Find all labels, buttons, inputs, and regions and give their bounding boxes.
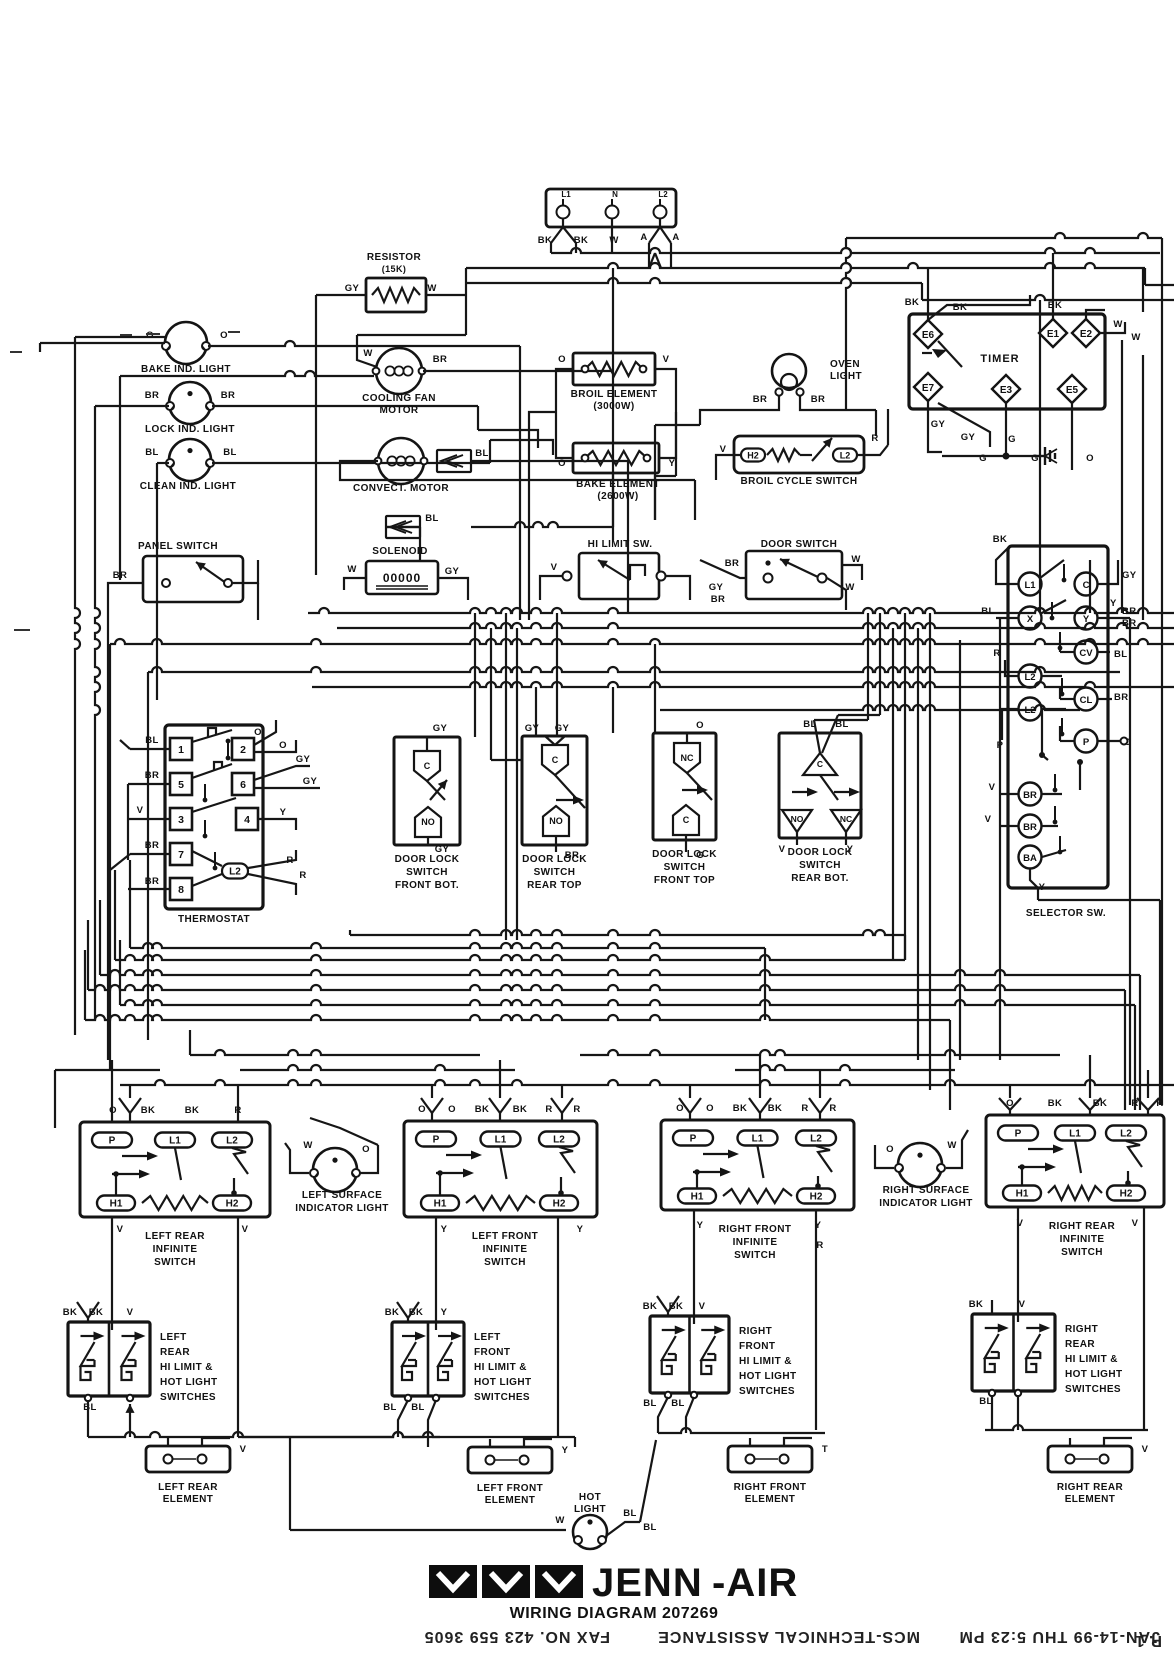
svg-text:GY: GY: [296, 754, 311, 765]
svg-text:A: A: [672, 232, 679, 243]
wire bus y1070c: [735, 1065, 955, 1070]
svg-text:LOCK IND. LIGHT: LOCK IND. LIGHT: [145, 424, 235, 435]
wire A fork from connector L2: [649, 218, 660, 243]
svg-text:BK: BK: [905, 297, 920, 308]
svg-text:H1: H1: [1016, 1189, 1029, 1200]
right rear infinite switch wipers: [1028, 1148, 1056, 1150]
svg-text:G: G: [1031, 453, 1039, 464]
svg-text:H1: H1: [434, 1199, 447, 1210]
svg-text:GY: GY: [303, 776, 318, 787]
svg-text:L1: L1: [495, 1135, 507, 1146]
wire: [928, 430, 942, 452]
svg-text:8: 8: [178, 884, 184, 896]
wire: [759, 1113, 761, 1120]
svg-text:SWITCH: SWITCH: [154, 1257, 196, 1268]
svg-text:O: O: [448, 1104, 456, 1115]
left rear infinite switch L1 blade: [175, 1148, 181, 1180]
svg-text:DOOR LOCK: DOOR LOCK: [652, 849, 717, 860]
svg-text:Y: Y: [562, 1445, 569, 1456]
wire: [675, 412, 677, 476]
wire: [819, 1113, 821, 1120]
svg-text:(2600W): (2600W): [597, 491, 638, 502]
svg-text:O: O: [696, 720, 704, 731]
svg-text:V: V: [127, 1307, 134, 1318]
terminal 7: [170, 843, 192, 865]
svg-text:H1: H1: [691, 1192, 704, 1203]
selector terminal BA: [1019, 846, 1042, 869]
wire: [1086, 310, 1105, 319]
svg-text:E5: E5: [1066, 385, 1079, 396]
wire: [490, 628, 492, 760]
wire L1 BK: [996, 548, 1018, 584]
selector switch: [1008, 546, 1108, 888]
svg-text:Y: Y: [1039, 882, 1046, 893]
svg-text:L2: L2: [810, 1134, 822, 1145]
blade 8-L2: [192, 874, 222, 886]
left rear hi limit & hot light switches hook2: [122, 1366, 132, 1380]
svg-text:HOT LIGHT: HOT LIGHT: [474, 1377, 531, 1388]
wire: [904, 935, 906, 960]
svg-text:V: V: [720, 444, 727, 455]
wire rail x1143: [1142, 355, 1144, 620]
svg-text:C: C: [552, 755, 559, 765]
svg-text:BR: BR: [113, 570, 128, 581]
svg-text:BR: BR: [221, 390, 236, 401]
svg-text:INDICATOR LIGHT: INDICATOR LIGHT: [295, 1203, 388, 1214]
svg-text:O: O: [558, 354, 566, 365]
svg-text:X: X: [1027, 614, 1034, 625]
svg-text:L1: L1: [752, 1134, 764, 1145]
wire broil-bake left: [556, 369, 573, 458]
svg-text:H2: H2: [553, 1199, 566, 1210]
selector terminal CL: [1075, 688, 1098, 711]
hot light: [573, 1515, 607, 1549]
bake indicator light: [165, 322, 207, 364]
svg-text:REAR BOT.: REAR BOT.: [791, 873, 849, 884]
svg-text:GY: GY: [345, 283, 360, 294]
svg-text:REAR: REAR: [160, 1347, 190, 1358]
svg-text:DOOR LOCK: DOOR LOCK: [788, 847, 853, 858]
right surface indicator light: [898, 1143, 942, 1187]
svg-text:4: 4: [244, 814, 250, 826]
svg-text:HOT LIGHT: HOT LIGHT: [739, 1371, 796, 1382]
wire: [114, 870, 116, 960]
wire solenoid left: [344, 578, 366, 590]
wire: [431, 1113, 433, 1121]
wire bus y1005: [120, 1000, 1135, 1005]
svg-text:INFINITE: INFINITE: [733, 1237, 778, 1248]
left front element: [468, 1447, 552, 1473]
svg-text:R: R: [573, 1104, 580, 1115]
right rear hi limit & hot light switches hook1: [985, 1358, 995, 1372]
cooling fan motor: [376, 348, 422, 394]
right rear infinite switch L2 blade: [1126, 1141, 1142, 1167]
left front hi limit & hot light switches hook1: [402, 1366, 412, 1380]
left front infinite switch H2 stem: [560, 1177, 562, 1195]
svg-text:L2: L2: [226, 1136, 238, 1147]
svg-text:W: W: [363, 348, 372, 359]
svg-text:G: G: [696, 850, 704, 861]
wire: [535, 687, 537, 736]
svg-text:ELEMENT: ELEMENT: [745, 1494, 796, 1505]
wire BL2: [838, 714, 880, 716]
svg-text:RIGHT SURFACE: RIGHT SURFACE: [883, 1185, 970, 1196]
wire broil right V: [655, 369, 676, 458]
svg-text:G: G: [1008, 434, 1016, 445]
wire rail x1040: [1039, 300, 1041, 560]
left rear infinite switch terminal H2: [213, 1196, 251, 1211]
wire fork BK at connector: [550, 243, 552, 253]
wire hi limit right: [666, 576, 690, 600]
wire bus y935: [350, 930, 905, 935]
wire rail x110: [109, 644, 111, 1070]
left rear infinite switch: [80, 1122, 270, 1217]
svg-text:BK: BK: [513, 1104, 528, 1115]
svg-text:BR: BR: [1023, 822, 1037, 833]
wire bus y710: [660, 705, 1080, 710]
svg-text:HI LIMIT &: HI LIMIT &: [739, 1356, 792, 1367]
svg-text:GY: GY: [961, 432, 976, 443]
wire solenoid right GY: [438, 578, 468, 600]
convection motor: [378, 438, 424, 484]
wire rail x75: [75, 337, 80, 1035]
broil element (3000W): [573, 353, 655, 385]
svg-text:RIGHT FRONT: RIGHT FRONT: [734, 1482, 807, 1493]
right rear hi limit & hot light switches: [972, 1314, 1055, 1391]
svg-text:HOT: HOT: [579, 1492, 601, 1503]
right front infinite switch terminal L2: [796, 1131, 836, 1146]
node fork at x655: [649, 253, 655, 268]
svg-text:O: O: [254, 727, 262, 738]
svg-text:BL: BL: [643, 1398, 656, 1409]
svg-text:RIGHT REAR: RIGHT REAR: [1049, 1221, 1116, 1232]
svg-text:MOTOR: MOTOR: [379, 405, 418, 416]
thermostat blades: [192, 730, 232, 742]
wire X BL: [996, 617, 1018, 619]
terminal 5: [170, 773, 192, 795]
svg-text:BL: BL: [1114, 649, 1127, 660]
svg-text:FRONT TOP: FRONT TOP: [654, 875, 715, 886]
stray scan marks: [10, 352, 30, 630]
right rear hi limit & hot light switches hook2: [1026, 1358, 1036, 1372]
right rear infinite switch resistor: [1048, 1186, 1102, 1200]
wire: [658, 1397, 668, 1433]
wire: [189, 1030, 191, 1055]
right front hi limit & hot light switches hook1: [662, 1360, 672, 1374]
left rear infinite switch terminal L1: [155, 1133, 195, 1148]
svg-text:6: 6: [240, 779, 246, 791]
svg-text:WIRING DIAGRAM 207269: WIRING DIAGRAM 207269: [510, 1605, 719, 1622]
svg-text:BK: BK: [141, 1105, 156, 1116]
svg-text:BK: BK: [1048, 300, 1063, 311]
wire: [1161, 238, 1163, 253]
left rear element stub: [202, 1438, 230, 1446]
wire lock light left: [95, 405, 169, 407]
wire: [129, 1085, 131, 1098]
svg-text:V: V: [1132, 1218, 1139, 1229]
wire bus y990: [88, 985, 1125, 990]
wire oven light down: [700, 396, 779, 425]
wire: [465, 268, 467, 295]
svg-text:BR: BR: [145, 840, 160, 851]
svg-text:W: W: [609, 235, 618, 246]
wire Y: [1097, 617, 1130, 619]
left rear infinite switch L2 blade: [232, 1148, 248, 1174]
svg-text:CL: CL: [1080, 695, 1093, 706]
svg-text:2: 2: [240, 744, 246, 756]
arrow connector plug: [437, 450, 471, 472]
wire: [489, 440, 491, 463]
svg-text:SWITCH: SWITCH: [664, 862, 706, 873]
svg-text:BK: BK: [768, 1103, 783, 1114]
svg-text:BR: BR: [1114, 692, 1129, 703]
selector terminal P: [1075, 730, 1098, 753]
wire bus y268: [466, 263, 1145, 268]
svg-text:BL: BL: [145, 447, 158, 458]
wire bus RF: [658, 1428, 825, 1433]
svg-text:SWITCHES: SWITCHES: [474, 1392, 530, 1403]
svg-text:R: R: [299, 870, 306, 881]
svg-text:Y: Y: [1083, 614, 1090, 625]
wire: [922, 295, 1174, 300]
wire x520 down: [519, 346, 521, 620]
svg-text:BK: BK: [185, 1105, 200, 1116]
svg-text:V: V: [779, 844, 786, 855]
svg-text:O: O: [886, 1144, 894, 1155]
wire: [386, 526, 420, 528]
svg-text:BK: BK: [643, 1301, 658, 1312]
svg-text:SWITCHES: SWITCHES: [739, 1386, 795, 1397]
wire: [1079, 760, 1081, 790]
wire BL t1: [130, 748, 170, 750]
right rear infinite switch terminal P: [998, 1126, 1038, 1141]
svg-text:V: V: [551, 562, 558, 573]
svg-text:LEFT: LEFT: [160, 1332, 187, 1343]
contact: [630, 565, 645, 580]
terminal E7: [914, 373, 942, 401]
svg-text:E2: E2: [1080, 329, 1093, 340]
wire: [529, 412, 556, 448]
terminal E6: [914, 320, 942, 348]
wire clean light left: [157, 462, 169, 464]
svg-text:BR: BR: [711, 594, 726, 605]
svg-text:W: W: [851, 554, 860, 565]
selector terminal X: [1019, 607, 1042, 630]
svg-text:ELEMENT: ELEMENT: [163, 1494, 214, 1505]
wire: [1144, 268, 1146, 285]
terminal L2: [222, 864, 248, 879]
svg-text:INFINITE: INFINITE: [483, 1244, 528, 1255]
wire BR t5: [128, 783, 170, 785]
wire bus y975: [100, 970, 1140, 975]
svg-text:BR: BR: [433, 354, 448, 365]
wire: [1100, 322, 1125, 333]
svg-text:P: P: [1083, 737, 1090, 748]
right front infinite switch H1 stem: [696, 1172, 698, 1188]
svg-text:5: 5: [178, 779, 184, 791]
svg-text:BK: BK: [475, 1104, 490, 1115]
wire: [1039, 560, 1041, 613]
wire rail x960: [959, 640, 961, 1060]
svg-text:P: P: [690, 1134, 697, 1145]
right rear hi limit & hot light switches blade1: [985, 1334, 999, 1358]
left front hi limit & hot light switches: [392, 1322, 464, 1396]
terminal 6: [232, 773, 254, 795]
svg-text:FRONT BOT.: FRONT BOT.: [395, 880, 459, 891]
svg-text:RIGHT: RIGHT: [1065, 1324, 1098, 1335]
terminal 1: [170, 738, 192, 760]
wire: [528, 448, 530, 620]
wire: [99, 900, 101, 975]
left rear infinite switch H2 stem: [233, 1178, 235, 1195]
svg-text:BR: BR: [753, 394, 768, 405]
left front hi limit & hot light switches hook2: [438, 1366, 448, 1380]
svg-text:LEFT FRONT: LEFT FRONT: [472, 1231, 538, 1242]
wire bus y960: [115, 955, 905, 960]
svg-text:W: W: [947, 1140, 956, 1151]
wire x893: [892, 628, 894, 960]
wire y1070a: [55, 1069, 160, 1071]
svg-text:GY: GY: [433, 723, 448, 734]
terminal 3: [170, 808, 192, 830]
wire: [1147, 1110, 1149, 1115]
svg-text:LEFT FRONT: LEFT FRONT: [477, 1483, 543, 1494]
svg-text:GY: GY: [525, 723, 540, 734]
svg-text:V: V: [240, 1444, 247, 1455]
svg-text:(15K): (15K): [382, 264, 407, 274]
wire: [759, 1055, 761, 1098]
right front infinite switch L1 blade: [758, 1146, 764, 1178]
left rear infinite switch terminal L2: [212, 1133, 252, 1148]
wire fan W left: [120, 371, 374, 376]
wire hot light W: [290, 1529, 566, 1531]
svg-text:BA: BA: [1023, 853, 1037, 864]
right rear infinite switch H2 stem: [1127, 1171, 1129, 1185]
wire bus y613: [308, 608, 1174, 613]
svg-text:R: R: [871, 433, 878, 444]
wire: [689, 1113, 691, 1120]
svg-text:Y: Y: [847, 844, 854, 855]
svg-text:CV: CV: [1079, 648, 1093, 659]
wire BL: [606, 1522, 640, 1536]
right rear infinite switch: [986, 1115, 1164, 1207]
wire: [407, 1318, 409, 1322]
wire: [340, 461, 695, 480]
svg-text:BL: BL: [981, 606, 994, 617]
wire: [254, 787, 320, 789]
svg-text:BR: BR: [565, 850, 580, 861]
svg-text:NO: NO: [421, 817, 435, 827]
wire: [129, 860, 131, 948]
wire: [398, 1400, 408, 1437]
svg-text:C: C: [817, 759, 823, 769]
wire: [310, 1118, 378, 1145]
svg-text:L1: L1: [561, 190, 571, 199]
right front infinite switch terminal P: [673, 1131, 713, 1146]
svg-text:BR: BR: [145, 390, 160, 401]
wire: [612, 268, 614, 371]
stems left rear: [111, 1113, 113, 1122]
right front infinite switch H2 stem: [817, 1176, 819, 1188]
left rear infinite switch terminal H1: [97, 1196, 135, 1211]
wire: [927, 401, 929, 430]
svg-text:3: 3: [178, 814, 184, 826]
svg-text:Y: Y: [441, 1224, 448, 1235]
wire timer E1 up: [1052, 253, 1054, 319]
svg-text:SWITCHES: SWITCHES: [160, 1392, 216, 1403]
svg-text:BR: BR: [811, 394, 826, 405]
svg-text:HI LIMIT &: HI LIMIT &: [1065, 1354, 1118, 1365]
timer: [909, 314, 1105, 409]
wire bus y1085: [120, 1080, 1174, 1085]
wire: [1145, 284, 1174, 286]
svg-text:SELECTOR SW.: SELECTOR SW.: [1026, 908, 1106, 919]
right front infinite switch terminal L1: [738, 1131, 778, 1146]
right front hi limit & hot light switches blade2: [701, 1336, 715, 1360]
wire: [1071, 403, 1073, 470]
wire: [927, 268, 929, 320]
svg-text:BL: BL: [475, 448, 488, 459]
svg-text:G: G: [979, 453, 987, 464]
wire rail x1122: [1121, 340, 1123, 560]
svg-text:R: R: [545, 1104, 552, 1115]
svg-text:L2: L2: [1120, 1129, 1132, 1140]
wire BA Y: [1030, 869, 1038, 900]
svg-text:T: T: [822, 1444, 828, 1455]
wire rail x157: [156, 463, 158, 700]
svg-text:A: A: [640, 232, 647, 243]
svg-text:HOT LIGHT: HOT LIGHT: [160, 1377, 217, 1388]
door lock switch rear top: [522, 736, 587, 845]
svg-text:FRONT: FRONT: [739, 1341, 775, 1352]
left surface indicator light: [313, 1148, 357, 1192]
selector terminal L2: [1019, 665, 1042, 688]
wire: [129, 1420, 131, 1437]
wire: [431, 1085, 433, 1098]
svg-text:1: 1: [178, 744, 184, 756]
wire BL up: [640, 1440, 656, 1522]
svg-text:C: C: [1083, 580, 1090, 591]
wire bus y672: [148, 667, 1120, 672]
left rear element: [146, 1446, 230, 1472]
svg-text:H2: H2: [226, 1199, 239, 1210]
wire L2 R: [1005, 660, 1018, 676]
lock indicator light: [169, 382, 211, 424]
wire: [1017, 1395, 1019, 1430]
svg-text:V: V: [1019, 1299, 1026, 1310]
selector terminal L2: [1019, 698, 1042, 721]
svg-text:Y: Y: [280, 807, 287, 818]
wire: [686, 1397, 694, 1433]
clean indicator light: [169, 439, 211, 481]
wire: [110, 854, 130, 870]
wire H1 down: [111, 1217, 113, 1330]
wire to NC: [612, 687, 614, 733]
Jenn-Air logo chevron boxes: [429, 1565, 477, 1598]
right rear element stub: [1104, 1438, 1132, 1446]
wire resistor left GY: [316, 294, 366, 296]
wire BK fork from connector L1: [551, 218, 563, 243]
wire bus y238: [846, 233, 1162, 238]
svg-text:BK: BK: [1048, 1098, 1063, 1109]
left front infinite switch terminal H2: [540, 1196, 578, 1211]
wire broil cycle left: [716, 455, 741, 480]
wire: [1042, 709, 1048, 760]
svg-text:Y: Y: [1110, 598, 1117, 609]
svg-text:NC: NC: [681, 753, 694, 763]
svg-text:Y: Y: [669, 458, 676, 469]
svg-text:Y: Y: [441, 1307, 448, 1318]
